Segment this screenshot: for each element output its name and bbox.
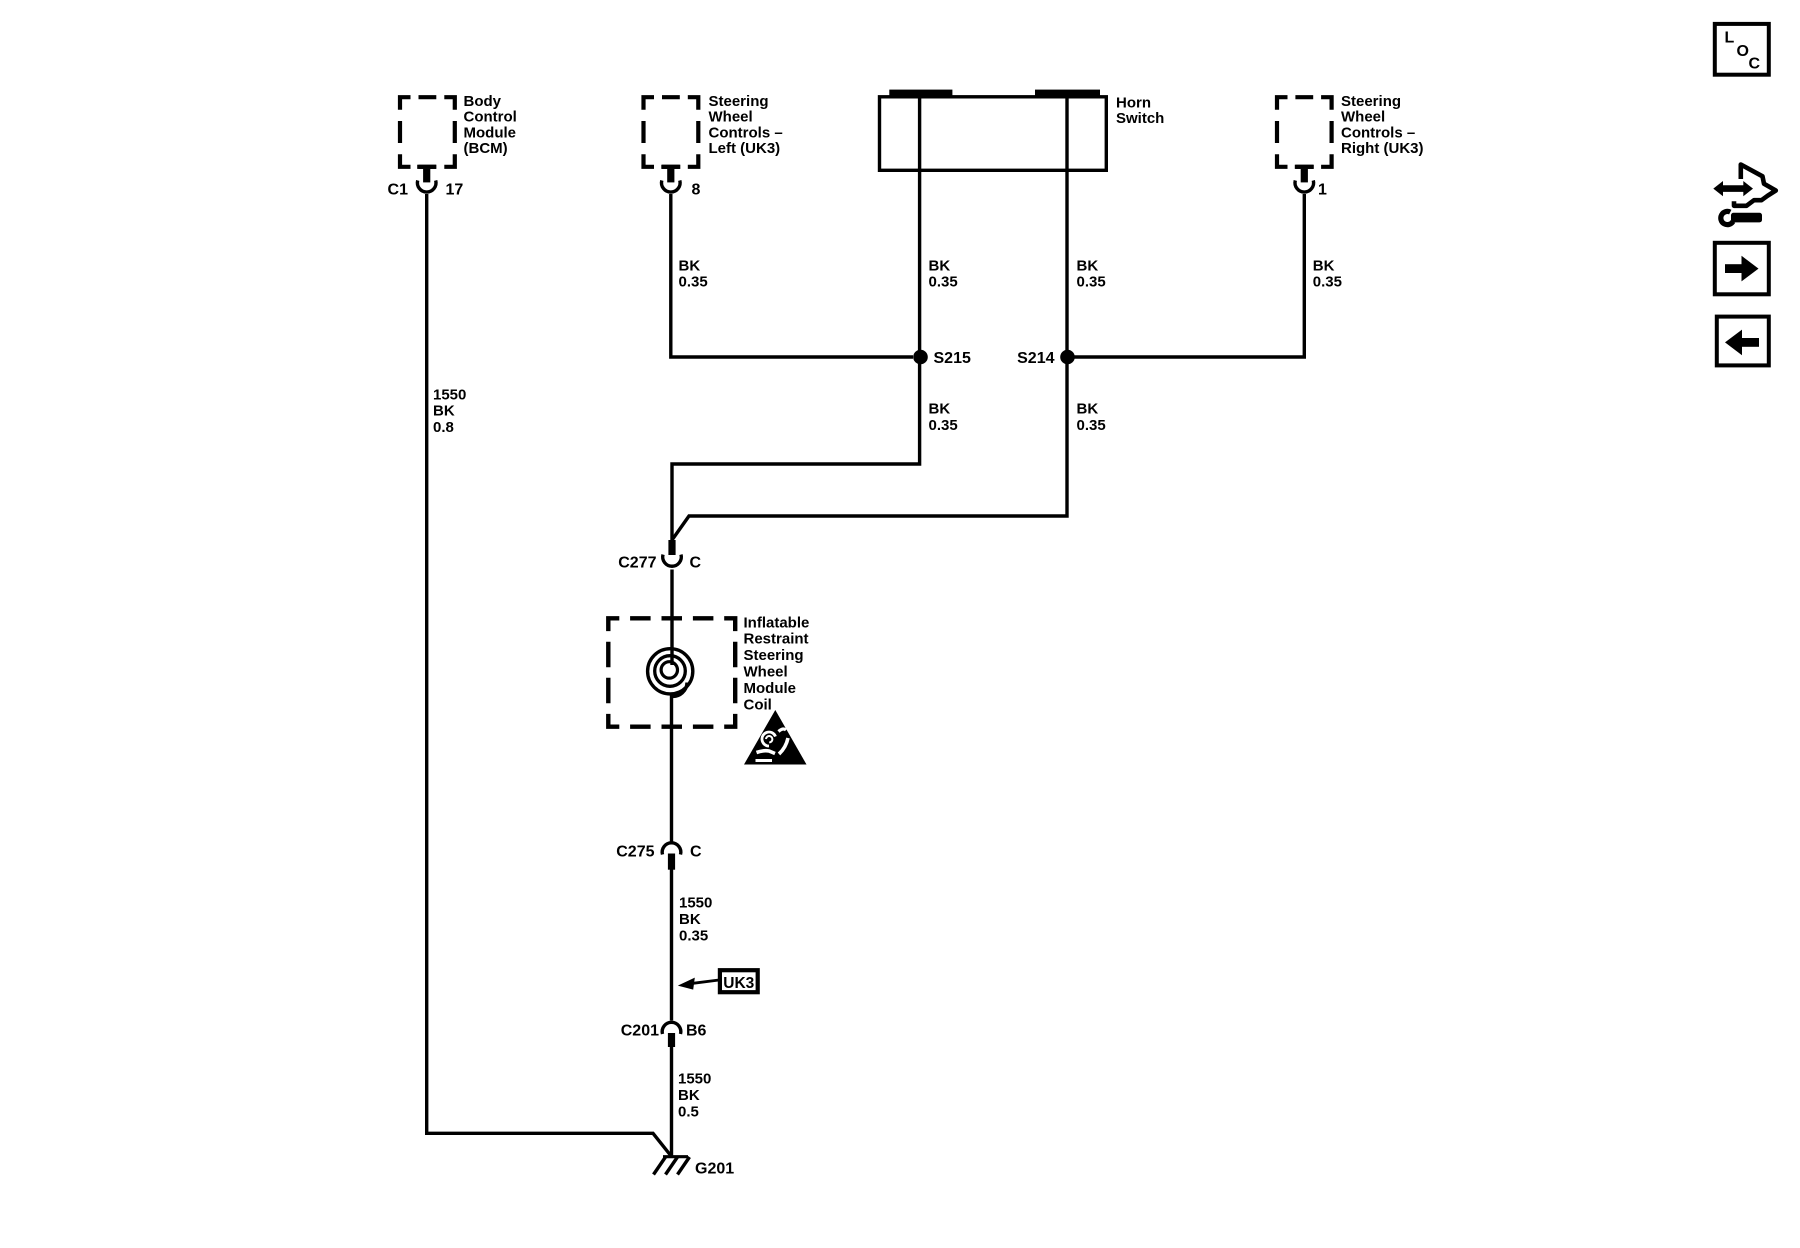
svg-text:C: C [690,555,702,572]
svg-text:Wheel: Wheel [709,109,753,126]
label S215 [934,350,971,367]
svg-text:G201: G201 [695,1161,734,1178]
module: Inflatable Restraint Steering Wheel Module Coil, dashed box [606,616,737,729]
label: Body Control Module (BCM) [464,93,517,157]
svg-text:BK: BK [929,257,951,274]
wire: Horn Switch right terminal through S214 down and left, merges to C277 [672,93,1067,540]
splice S215 junction dot [913,350,928,365]
svg-text:Coil: Coil [744,696,772,713]
wire: BCM C1-17 down to ground junction, 1550 BK 0.8 [427,194,672,1157]
option flag UK3 with arrow pointing at wire [678,970,758,992]
label: BK 0.35 on wire below S215 [929,401,958,434]
svg-text:C275: C275 [616,844,654,861]
splice S214 junction dot [1060,350,1075,365]
svg-text:0.35: 0.35 [929,417,958,434]
svg-text:BK: BK [678,1087,700,1104]
svg-text:BK: BK [679,911,701,928]
svg-text:C: C [690,844,702,861]
svg-text:C: C [1749,56,1761,73]
label: Steering Wheel Controls - Left (UK3) [709,93,783,157]
svg-text:B6: B6 [686,1023,707,1040]
svg-text:Wheel: Wheel [1341,109,1385,126]
svg-text:Inflatable: Inflatable [744,614,810,631]
wire: coil to C275 [670,695,673,844]
connector C277 pin C (in-line) [663,540,682,566]
svg-text:BK: BK [1313,257,1335,274]
svg-text:8: 8 [692,182,701,199]
pin C of C277 [690,555,702,572]
svg-text:0.35: 0.35 [1077,417,1106,434]
label: BK 0.35 on SWC-Right wire [1313,257,1342,290]
wire: C201 to ground G201, 1550 BK 0.5 [670,1047,673,1157]
svg-text:Right (UK3): Right (UK3) [1341,140,1424,157]
svg-text:O: O [1737,43,1749,60]
pin 1 [1318,182,1327,199]
svg-text:Module: Module [464,124,517,141]
svg-text:Control: Control [464,109,517,126]
icon: forward arrow box [1715,243,1769,294]
coil: clockspring spiral symbol [648,649,693,697]
label: Inflatable Restraint Steering Wheel Module Coil [744,614,810,713]
switch: Horn Switch box [880,90,1107,171]
wire: SWC-Left pin 8 to splice S215, BK 0.35 [671,194,913,357]
ground G201 symbol [654,1157,690,1175]
label C275 [616,844,654,861]
svg-text:Controls –: Controls – [1341,124,1415,141]
svg-text:0.35: 0.35 [679,274,708,291]
module: Steering Wheel Controls - Right (UK3), dashed box [1275,95,1334,169]
LOC reference box icon [1715,24,1769,75]
svg-text:Switch: Switch [1116,110,1164,127]
label: Steering Wheel Controls - Right (UK3) [1341,93,1424,157]
connector C275 pin C (in-line) [662,843,681,870]
svg-text:S214: S214 [1017,350,1054,367]
label: Horn Switch [1116,94,1164,127]
connector pin 8 of SWC-Left [661,165,680,192]
label: 1550 BK 0.5 [678,1071,711,1121]
svg-text:S215: S215 [934,350,971,367]
svg-text:Left (UK3): Left (UK3) [709,140,781,157]
wire: C275 to C201, 1550 BK 0.35 [670,869,673,1021]
wire: Horn Switch left terminal through S215 down and left to C277 [672,93,920,540]
svg-text:Horn: Horn [1116,94,1151,111]
connector pin 1 of SWC-Right [1295,165,1314,192]
label: BK 0.35 on wire below S214 [1077,401,1106,434]
label: 1550 BK 0.8 on BCM wire [433,386,466,436]
svg-text:BK: BK [1077,401,1099,418]
svg-text:(BCM): (BCM) [464,140,508,157]
connector C1 pin 17 of BCM [417,165,436,192]
svg-text:Steering: Steering [744,647,804,664]
icon: back arrow box [1717,317,1769,366]
svg-text:0.35: 0.35 [1077,274,1106,291]
svg-text:Body: Body [464,93,502,110]
svg-text:C201: C201 [621,1023,659,1040]
wire: SWC-Right pin 1 to splice S214, BK 0.35 [1074,194,1304,357]
svg-text:C1: C1 [388,182,409,199]
module: Body Control Module (BCM), dashed box [398,95,457,169]
svg-text:0.35: 0.35 [1313,274,1342,291]
label: BK 0.35 on SWC-Left wire [679,257,708,290]
label UK3 [723,975,754,992]
svg-text:0.8: 0.8 [433,419,454,436]
svg-text:C277: C277 [618,555,656,572]
svg-text:1550: 1550 [678,1071,711,1088]
svg-text:1: 1 [1318,182,1327,199]
svg-text:UK3: UK3 [723,975,754,992]
svg-text:Module: Module [744,680,797,697]
svg-text:0.5: 0.5 [678,1103,699,1120]
icon: wiring schematics shortcut (double arrow + outline arrow + wrench) [1713,165,1776,225]
label S214 [1017,350,1054,367]
module: Steering Wheel Controls - Left (UK3), dashed box [641,95,700,169]
label G201 [695,1161,734,1178]
svg-text:0.35: 0.35 [929,274,958,291]
pin 8 [692,182,701,199]
svg-text:1550: 1550 [679,895,712,912]
label: 1550 BK 0.35 [679,895,712,945]
svg-text:Wheel: Wheel [744,664,788,681]
svg-text:17: 17 [446,182,464,199]
svg-text:Steering: Steering [1341,93,1401,110]
svg-text:Restraint: Restraint [744,631,809,648]
connector C201 pin B6 (in-line) [662,1022,681,1047]
svg-text:L: L [1725,30,1735,47]
pin B6 of C201 [686,1023,707,1040]
svg-text:Steering: Steering [709,93,769,110]
label: BK 0.35 on horn-right wire above S214 [1077,257,1106,290]
svg-text:Controls –: Controls – [709,124,783,141]
pin 17 [446,182,464,199]
svg-text:BK: BK [1077,257,1099,274]
svg-text:BK: BK [433,403,455,420]
label C201 [621,1023,659,1040]
svg-text:0.35: 0.35 [679,927,708,944]
wire: C277 down into clockspring coil [670,570,673,666]
pin C of C275 [690,844,702,861]
label C1 [388,182,409,199]
svg-text:BK: BK [679,257,701,274]
svg-text:BK: BK [929,401,951,418]
label C277 [618,555,656,572]
label: BK 0.35 on horn-left wire above S215 [929,257,958,290]
warning: SIR airbag caution triangle [744,710,807,765]
svg-text:1550: 1550 [433,386,466,403]
